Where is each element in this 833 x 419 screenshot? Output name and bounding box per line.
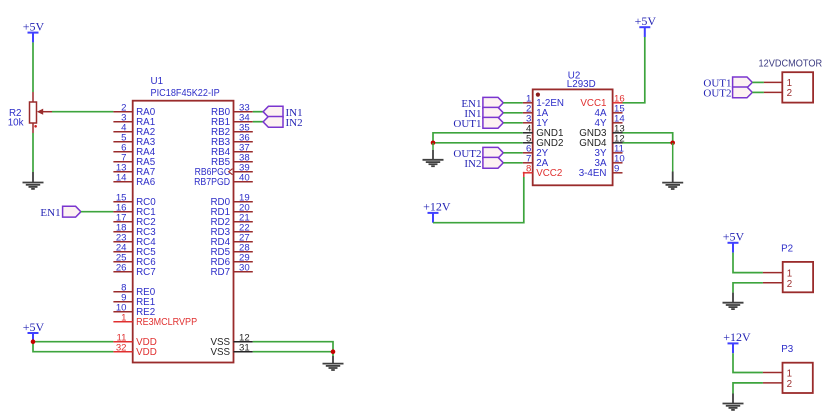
junction at U2 left ground	[431, 141, 436, 146]
wire EN1 to U2	[503, 102, 523, 104]
global label IN1 (from U1 RB0)	[263, 106, 303, 119]
ground below R2	[23, 172, 44, 189]
svg-text:+5V: +5V	[635, 14, 657, 28]
svg-text:31: 31	[239, 343, 250, 354]
wire OUT1 to motor pin 1	[752, 81, 764, 83]
wire OUT2 to U2	[503, 152, 523, 154]
wire +5V to P2 pin 1	[733, 253, 763, 273]
ground below P3	[723, 394, 744, 410]
svg-text:2: 2	[787, 279, 792, 290]
svg-text:+5V: +5V	[23, 19, 45, 33]
U1 pin 10 (RE2)	[113, 303, 155, 319]
motor pin 1	[764, 78, 792, 89]
U1 pin 18 (RC3)	[113, 223, 156, 239]
junction at VSS	[331, 349, 336, 354]
wire U2 GND3 to ground	[623, 133, 673, 143]
power symbol +5V (at P2)	[723, 230, 745, 253]
U1 pin 35 (RB2)	[211, 123, 253, 139]
svg-text:P3: P3	[781, 344, 794, 355]
U1 pin 9 (RE1)	[113, 293, 155, 309]
svg-text:PIC18F45K22-IP: PIC18F45K22-IP	[151, 87, 220, 99]
svg-text:2: 2	[787, 379, 792, 390]
U2 pin 11 (3Y)	[595, 144, 624, 160]
wire R2 bottom to ground	[32, 133, 34, 172]
U2 pin 5 (GND2)	[523, 134, 564, 150]
svg-text:+12V: +12V	[723, 330, 751, 344]
svg-text:RE3MCLRVPP: RE3MCLRVPP	[136, 317, 197, 328]
wire OUT1 to U2	[503, 122, 523, 124]
U1 pin 24 (RC5)	[113, 243, 156, 259]
svg-text:VDD: VDD	[136, 347, 157, 358]
svg-text:L293D: L293D	[567, 79, 596, 90]
U1 pin 17 (RC2)	[113, 213, 155, 229]
svg-text:RC7: RC7	[136, 267, 156, 278]
wire IN1 to U2	[503, 112, 523, 114]
wire P3 pin 2 to ground	[733, 383, 763, 394]
U2 pin 12 (GND4)	[579, 134, 624, 150]
svg-text:IN2: IN2	[464, 158, 481, 170]
U1 pin 15 (RC0)	[113, 193, 156, 209]
U2 pin 3 (1Y)	[523, 114, 549, 130]
svg-text:U1: U1	[151, 76, 164, 87]
svg-text:+5V: +5V	[723, 230, 745, 244]
global label OUT1 (to motor)	[703, 77, 752, 90]
U2 pin 16 (VCC1)	[580, 94, 624, 110]
svg-text:RB7PGD: RB7PGD	[194, 177, 230, 188]
P2 pin 1	[763, 269, 792, 280]
svg-text:14: 14	[116, 173, 127, 184]
U2 pin 13 (GND3)	[579, 124, 624, 140]
power symbol +12V (at P3)	[723, 330, 751, 353]
U1 pin 8 (RE0)	[113, 283, 155, 299]
motor pin 2	[764, 88, 792, 99]
U1 pin 11 (VDD)	[113, 333, 156, 349]
global label IN1 (to U2)	[464, 107, 503, 120]
power symbol +12V (to U2 VCC2)	[423, 200, 451, 223]
power symbol +5V (at U1 VDD)	[23, 320, 45, 343]
U2 pin 1 (1-2EN)	[523, 94, 564, 110]
U2 pin 7 (2A)	[523, 154, 549, 170]
svg-text:26: 26	[116, 263, 127, 274]
U1 pin 5 (RA3)	[113, 133, 155, 149]
wire +12V to U2 VCC2	[433, 177, 524, 223]
U2 pin 9 (3-4EN)	[579, 164, 623, 180]
wire +5V to R2 top	[32, 42, 34, 92]
svg-text:1: 1	[121, 313, 126, 324]
svg-text:VSS: VSS	[210, 347, 230, 358]
ground below U2 GND3/GND4	[662, 143, 683, 189]
junction at U2 right ground	[670, 141, 675, 146]
U1 pin 26 (RC7)	[113, 263, 155, 279]
U1 pin 31 (VSS)	[210, 343, 252, 359]
wire U1 RB1 to IN2	[253, 121, 263, 123]
wire U1 VSS pin 31 to ground	[253, 351, 333, 353]
svg-text:OUT2: OUT2	[703, 88, 731, 100]
wire R2 wiper to U1 RA0	[52, 111, 113, 113]
connector P3 body	[781, 344, 813, 393]
wire +5V to VDD pin 32	[33, 342, 113, 352]
wire P2 pin 2 to ground	[733, 283, 763, 293]
svg-text:3-4EN: 3-4EN	[579, 168, 607, 179]
U2 pin 6 (2Y)	[523, 144, 549, 160]
global label EN1 (to U2)	[461, 97, 503, 110]
P3 pin 1	[763, 369, 792, 380]
ground below P2	[723, 293, 744, 310]
svg-text:IN2: IN2	[286, 117, 303, 129]
svg-text:9: 9	[614, 164, 619, 175]
P2 pin 2	[763, 279, 792, 290]
global label EN1 (to U1 RC1)	[40, 206, 80, 219]
svg-text:OUT1: OUT1	[453, 118, 481, 130]
U1 pin 13 (RA7)	[113, 163, 155, 179]
U1 pin 1 (RE3MCLRVPP)	[113, 313, 197, 329]
junction at +5V/VDD	[31, 339, 36, 344]
U1 pin 20 (RD1)	[210, 203, 252, 219]
U1 pin 3 (RA1)	[113, 113, 155, 129]
svg-text:EN1: EN1	[40, 207, 60, 219]
wire +5V to VDD pin 11	[33, 341, 113, 343]
ground below U1 VSS	[323, 356, 344, 370]
global label IN2 (from U1 RB1)	[263, 117, 303, 130]
wire U1 RB0 to IN1	[253, 111, 263, 113]
U2 pin 2 (1A)	[523, 104, 549, 120]
U1 pin 40 (RB7PGD)	[194, 173, 253, 189]
U1 pin 7 (RA5)	[113, 153, 155, 169]
U1 pin 25 (RC6)	[113, 253, 156, 269]
wire U2 GND2 to ground	[433, 142, 523, 144]
U1 pin 34 (RB1)	[211, 113, 253, 129]
U1 pin 14 (RA6)	[113, 173, 155, 189]
U1 pin 39 (RB6PGC)	[195, 163, 253, 179]
U2 pin 10 (3A)	[595, 154, 625, 170]
power symbol +5V (to U2 VCC1)	[635, 14, 657, 37]
svg-text:12VDCMOTOR: 12VDCMOTOR	[759, 58, 823, 69]
U1 pin 29 (RD6)	[210, 253, 252, 269]
global label IN2 (to U2)	[464, 157, 503, 170]
wire U1 VSS pin 12 to ground	[253, 342, 333, 356]
connector 12VDCMOTOR body	[759, 58, 823, 102]
U1 pin 32 (VDD)	[113, 343, 156, 359]
svg-text:10k: 10k	[8, 117, 24, 128]
svg-text:8: 8	[526, 164, 531, 175]
U1 pin 30 (RD7)	[210, 263, 252, 279]
svg-text:RA6: RA6	[136, 177, 156, 188]
U1 pin 6 (RA4)	[113, 143, 155, 159]
U1 pin 27 (RD4)	[210, 233, 252, 249]
U1 pin 23 (RC4)	[113, 233, 156, 249]
svg-text:32: 32	[116, 343, 127, 354]
U1 pin 2 (RA0)	[113, 103, 155, 119]
svg-text:1: 1	[787, 369, 792, 380]
svg-text:P2: P2	[781, 243, 793, 254]
P3 pin 2	[763, 379, 792, 390]
U2 pin 4 (GND1)	[523, 124, 564, 140]
svg-text:2: 2	[787, 88, 792, 99]
svg-text:RD7: RD7	[210, 267, 230, 278]
wire IN2 to U2	[503, 162, 523, 164]
U1 pin 36 (RB3)	[211, 133, 253, 149]
wire +5V to U2 VCC1	[623, 37, 645, 103]
svg-text:+12V: +12V	[423, 200, 451, 214]
U1 pin 16 (RC1)	[113, 203, 155, 219]
U1 pin 38 (RB5)	[211, 153, 253, 169]
wire U2 GND4 to ground	[623, 142, 673, 144]
U1 pin 21 (RD2)	[210, 213, 252, 229]
wire OUT2 to motor pin 2	[752, 91, 764, 93]
global label OUT2 (to motor)	[703, 87, 752, 100]
U1 pin 33 (RB0)	[211, 103, 253, 119]
power symbol +5V (top left)	[23, 19, 45, 42]
U1 pin 28 (RD5)	[210, 243, 252, 259]
resistor R2 10k (potentiometer)	[8, 92, 52, 133]
global label OUT2 (to U2)	[453, 147, 503, 160]
wire EN1 to U1 RC1	[81, 211, 114, 213]
U1 pin 19 (RD0)	[210, 193, 252, 209]
U1 pin 4 (RA2)	[113, 123, 155, 139]
IC U2 L293D body	[533, 70, 613, 185]
U2 pin 14 (4Y)	[595, 114, 626, 130]
U2 pin 8 (VCC2)	[523, 164, 563, 180]
ground below U2 GND1/GND2	[423, 143, 444, 166]
svg-text:VCC2: VCC2	[536, 168, 562, 179]
svg-text:30: 30	[239, 263, 250, 274]
wire U2 GND1 to ground	[433, 133, 523, 143]
svg-text:+5V: +5V	[23, 320, 45, 334]
U1 pin 12 (VSS)	[210, 333, 252, 349]
IC U1 PIC18F45K22-IP body	[133, 76, 234, 363]
U2 pin 15 (4A)	[595, 104, 625, 120]
U1 pin 22 (RD3)	[210, 223, 252, 239]
connector P2 body	[781, 243, 813, 292]
global label OUT1 (to U2)	[453, 117, 503, 130]
wire +12V to P3 pin 1	[733, 353, 763, 372]
svg-text:40: 40	[239, 173, 250, 184]
U1 pin 37 (RB4)	[211, 143, 253, 159]
